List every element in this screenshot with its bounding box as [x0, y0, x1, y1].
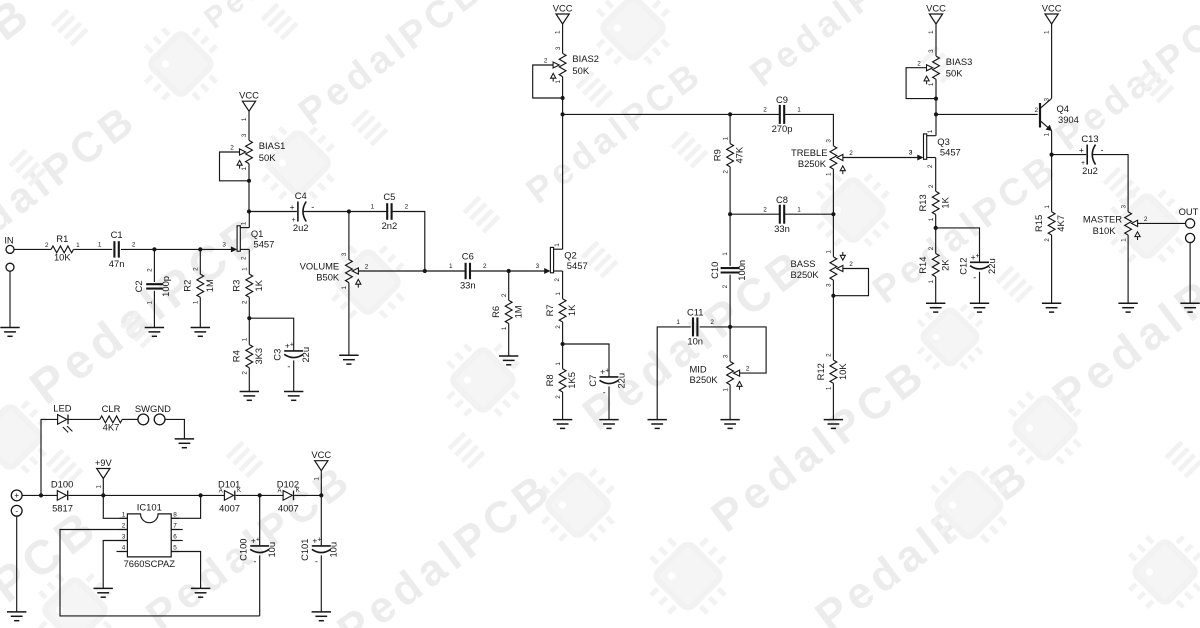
svg-text:3: 3 [722, 354, 729, 358]
svg-text:3: 3 [1120, 205, 1127, 209]
capacitor C9 270p [763, 94, 801, 134]
resistor R7 1K [544, 292, 577, 329]
svg-text:1: 1 [928, 30, 935, 34]
wire R9 to C8 node [729, 167, 731, 214]
wire node to C6 [425, 270, 466, 272]
IN jack sleeve pin [6, 263, 14, 271]
wire VCC to BIAS2 [562, 24, 564, 53]
svg-text:C7: C7 [587, 375, 598, 387]
svg-text:R1: R1 [56, 233, 68, 244]
ground C3 [284, 392, 303, 401]
svg-text:Q3: Q3 [937, 136, 950, 147]
wire R13 to R14 node [935, 215, 937, 254]
svg-text:50K: 50K [946, 68, 963, 79]
svg-text:2: 2 [241, 256, 248, 260]
svg-text:3: 3 [241, 133, 248, 137]
ground C101 [312, 612, 331, 621]
wire R12 to ground [832, 383, 834, 419]
diode D101 4007 [218, 479, 241, 514]
capacitor C10 100n [709, 252, 747, 289]
wire BIAS1 wiper loop [220, 152, 250, 181]
resistor CLR 4K7 [100, 403, 122, 432]
svg-text:R12: R12 [815, 363, 826, 380]
svg-text:2: 2 [927, 164, 934, 168]
wire C2 to ground [153, 291, 155, 328]
wire node to R2 [199, 249, 201, 274]
wire IC pin3 to ground [103, 541, 127, 589]
pad SWGND A [138, 414, 149, 425]
svg-text:1: 1 [554, 243, 561, 247]
wire VCC to Q4 collector [1051, 24, 1053, 98]
wire LED to CLR [68, 418, 100, 420]
svg-text:B50K: B50K [316, 271, 340, 282]
svg-text:MASTER: MASTER [1083, 213, 1122, 224]
capacitor C3 22u [272, 341, 312, 372]
svg-text:2n2: 2n2 [382, 220, 398, 231]
wire IC pin2 to bottom rail [60, 530, 260, 616]
svg-text:-: - [287, 361, 290, 371]
wire node to MID top [729, 327, 731, 362]
wire IC pin7 stub [171, 529, 183, 531]
svg-text:R6: R6 [490, 306, 501, 318]
svg-text:+: + [976, 253, 980, 260]
svg-text:R7: R7 [544, 304, 555, 316]
power +9V [95, 457, 113, 489]
svg-text:1K5: 1K5 [566, 372, 577, 389]
wire treble bottom to C8 node [832, 169, 834, 214]
svg-text:2: 2 [746, 366, 750, 373]
wire BIAS3 to Q3 drain [935, 79, 937, 135]
svg-text:A: A [277, 489, 281, 495]
svg-text:A: A [219, 489, 223, 495]
svg-text:2: 2 [193, 267, 200, 271]
junction C4/C5/volume [347, 209, 351, 213]
svg-text:3: 3 [536, 263, 540, 270]
wire C10 to C11 node [729, 275, 731, 327]
svg-text:2: 2 [242, 371, 249, 375]
svg-text:+: + [256, 537, 260, 544]
junction D102/VCC/C101 [319, 493, 323, 497]
wire BASS to R12 [832, 280, 834, 360]
svg-text:VOLUME: VOLUME [300, 260, 340, 271]
svg-text:R8: R8 [544, 374, 555, 386]
svg-text:2: 2 [501, 293, 508, 297]
svg-text:1: 1 [1043, 132, 1050, 136]
svg-text:C3: C3 [272, 349, 283, 361]
svg-text:1: 1 [1044, 205, 1051, 209]
wire node to C9 [730, 113, 780, 115]
ground battery [7, 612, 26, 621]
wire C8 to treble bottom [784, 213, 833, 215]
ground C7 [599, 420, 618, 429]
svg-text:2: 2 [45, 242, 49, 249]
svg-text:C101: C101 [299, 538, 310, 560]
svg-text:1: 1 [193, 300, 200, 304]
svg-text:1: 1 [341, 285, 348, 289]
svg-text:2: 2 [928, 184, 935, 188]
svg-text:1K: 1K [939, 196, 950, 208]
wire D100 to D101 [69, 494, 225, 496]
wire node to C8 [730, 213, 780, 215]
svg-text:1M: 1M [204, 279, 215, 292]
svg-text:IN: IN [4, 234, 13, 245]
svg-text:2: 2 [763, 206, 767, 213]
svg-text:2: 2 [555, 325, 562, 329]
battery negative terminal [11, 505, 22, 516]
svg-text:C12: C12 [957, 257, 968, 274]
ground C2 [145, 328, 164, 337]
svg-text:4K7: 4K7 [1055, 215, 1066, 232]
svg-text:1: 1 [371, 204, 375, 211]
wire Q3 source to R13 [935, 158, 937, 192]
potentiometer VOLUME B50K [300, 252, 369, 289]
trimmer BIAS2 50K [544, 46, 599, 83]
svg-text:1: 1 [501, 326, 508, 330]
svg-text:C10: C10 [709, 262, 720, 279]
svg-text:R13: R13 [917, 194, 928, 211]
junction R3/R4/C3 [247, 316, 251, 320]
junction LED branch [39, 493, 43, 497]
diode D102 4007 [277, 479, 300, 514]
wire treble wiper to Q3 gate [843, 157, 918, 159]
wire BIAS1 to Q1 drain [248, 164, 250, 212]
svg-text:1: 1 [122, 511, 126, 518]
ground MASTER [1118, 303, 1137, 312]
svg-text:5457: 5457 [940, 147, 961, 158]
wire C1 to Q1 gate [121, 248, 232, 250]
ground SWGND [175, 439, 194, 448]
ground OUT [1180, 303, 1199, 312]
svg-text:10K: 10K [54, 252, 71, 263]
svg-text:B10K: B10K [1093, 225, 1117, 236]
svg-text:1K: 1K [253, 279, 264, 291]
svg-text:1: 1 [928, 217, 935, 221]
svg-text:2: 2 [146, 268, 153, 272]
wire R8 to ground [562, 392, 564, 420]
junction C8 right [831, 212, 835, 216]
wire master wiper to OUT [1137, 222, 1185, 224]
svg-text:MID: MID [690, 363, 707, 374]
wire R1 to C1 [74, 248, 113, 250]
svg-text:1M: 1M [512, 305, 523, 318]
power VCC at BIAS1 [239, 90, 259, 122]
ground R6 [499, 356, 518, 365]
IC U IC101 7660SCPAZ [119, 501, 179, 569]
wire node to C101 [320, 495, 322, 546]
wire Q4 emitter down [1051, 131, 1053, 212]
svg-text:BIAS1: BIAS1 [259, 140, 286, 151]
wire C101 to ground [320, 555, 322, 612]
svg-text:1: 1 [242, 337, 249, 341]
wire R4 to ground [248, 368, 250, 392]
OUT jack sleeve pin [1186, 233, 1195, 242]
svg-text:C2: C2 [133, 280, 144, 292]
svg-text:1: 1 [826, 172, 833, 176]
svg-text:VCC: VCC [239, 90, 259, 101]
svg-text:22u: 22u [300, 347, 311, 363]
capacitor C1 47n [98, 229, 136, 269]
svg-text:2: 2 [722, 170, 729, 174]
wire R3 to R4 node [248, 297, 250, 344]
svg-text:CLR: CLR [102, 403, 121, 414]
wire BIAS2 wiper loop [533, 65, 563, 98]
svg-text:1: 1 [676, 319, 680, 326]
svg-text:C5: C5 [383, 191, 395, 202]
power VCC at BIAS3 [926, 2, 946, 34]
junction BIAS2 wiper [561, 96, 565, 100]
svg-text:VCC: VCC [1042, 2, 1062, 13]
svg-text:R14: R14 [917, 256, 928, 273]
ground VOLUME [339, 355, 358, 364]
svg-text:3: 3 [222, 242, 226, 249]
wire rail BIAS2 to tone stack [563, 113, 731, 115]
IN jack tip pin [6, 245, 14, 253]
ground R4 [240, 392, 259, 401]
svg-text:BASS: BASS [791, 258, 816, 269]
svg-text:OUT: OUT [1179, 206, 1199, 217]
wire CLR to SWGND [122, 418, 138, 420]
wire C8 node to C10 [729, 214, 731, 266]
svg-text:-: - [315, 556, 318, 566]
junction BIAS3 wiper [934, 97, 938, 101]
transistor Q2 5457 [536, 243, 588, 282]
ground R12 [824, 420, 843, 429]
wire treble/C8 node to BASS [832, 214, 834, 257]
capacitor C100 10u [238, 536, 278, 567]
wire IC pin4 stub [117, 551, 128, 553]
svg-text:C4: C4 [295, 190, 307, 201]
svg-text:100n: 100n [736, 260, 747, 281]
svg-text:10n: 10n [687, 336, 703, 347]
wire volume bottom to ground [348, 283, 350, 356]
junction BASS wiper [831, 294, 835, 298]
svg-text:1: 1 [826, 250, 833, 254]
junction C8 left [728, 212, 732, 216]
capacitor C13 2u2 [1079, 133, 1104, 176]
svg-text:4: 4 [122, 545, 126, 552]
wire rail to Q4 base [936, 113, 1038, 115]
svg-text:-: - [603, 387, 606, 397]
svg-text:1: 1 [241, 117, 248, 121]
ground C12 [970, 303, 989, 312]
capacitor C2 100p [133, 268, 171, 305]
wire C3 to ground [293, 360, 295, 391]
svg-text:C6: C6 [462, 251, 474, 262]
svg-text:-: - [311, 202, 314, 212]
svg-text:2: 2 [483, 263, 487, 270]
svg-text:4K7: 4K7 [103, 422, 120, 433]
svg-text:IC101: IC101 [137, 501, 162, 512]
svg-text:1: 1 [449, 263, 453, 270]
svg-text:4007: 4007 [278, 503, 299, 514]
svg-text:22u: 22u [615, 373, 626, 389]
svg-text:1: 1 [95, 484, 102, 488]
svg-text:C11: C11 [687, 307, 704, 318]
wire C13 to master top [1093, 155, 1128, 212]
junction R13/R14/C12 [934, 226, 938, 230]
wire Q1 drain to C4 [249, 211, 297, 213]
svg-text:33n: 33n [460, 280, 476, 291]
svg-text:TREBLE: TREBLE [791, 147, 827, 158]
LED indicator [53, 403, 72, 433]
OUT jack tip pin [1186, 219, 1195, 228]
svg-text:1: 1 [242, 267, 249, 271]
resistor R6 1M [490, 293, 523, 330]
wire Q1 source to R3 [248, 249, 250, 274]
svg-text:5: 5 [173, 545, 177, 552]
svg-text:8: 8 [173, 511, 177, 518]
ground R14 [926, 303, 945, 312]
wire node to C7 [563, 344, 609, 377]
wire IC pin6 stub [171, 540, 183, 542]
svg-text:1: 1 [928, 279, 935, 283]
svg-text:+: + [14, 491, 19, 500]
svg-text:5817: 5817 [52, 503, 73, 514]
svg-text:R9: R9 [712, 149, 723, 161]
wire rail to IC pin1 [103, 495, 127, 518]
wire node to C3 [249, 318, 293, 351]
wire IN to R1 [14, 248, 51, 250]
svg-text:1: 1 [555, 292, 562, 296]
ground R8 [553, 420, 572, 429]
wire Q2 drain up to rail [562, 77, 564, 250]
svg-text:SWGND: SWGND [135, 403, 171, 414]
junction D101/C100/D102 [258, 493, 262, 497]
resistor R4 3K3 [231, 337, 264, 374]
capacitor C7 22u [587, 367, 627, 398]
wire node to R9 [729, 114, 731, 143]
junction Q4 emitter/C13/R15 [1050, 153, 1054, 157]
wire C4 to volume node [304, 211, 349, 213]
junction R6 tap [507, 269, 511, 273]
svg-text:50K: 50K [572, 65, 589, 76]
junction BIAS1 wiper [247, 179, 251, 183]
svg-text:3: 3 [122, 534, 126, 541]
svg-text:10u: 10u [328, 542, 339, 558]
resistor R13 1K [917, 184, 950, 221]
svg-text:2: 2 [230, 145, 234, 152]
wire SWGND to ground [165, 419, 184, 439]
wire C5 to corner down [392, 212, 425, 272]
svg-text:1: 1 [1044, 30, 1051, 34]
diode D100 5817 [51, 479, 73, 514]
svg-text:2: 2 [544, 58, 548, 65]
capacitor C12 22u [957, 252, 997, 283]
wire R7 to R8 [562, 322, 564, 369]
wire Q1 drain [248, 212, 250, 228]
svg-text:5457: 5457 [567, 260, 588, 271]
svg-text:-: - [973, 273, 976, 283]
svg-text:Q2: Q2 [564, 250, 577, 261]
svg-text:1: 1 [241, 221, 248, 225]
svg-text:5457: 5457 [254, 238, 275, 249]
wire MID bottom to ground [729, 385, 731, 420]
potentiometer MID B250K [690, 354, 750, 391]
capacitor C101 10u [299, 536, 339, 567]
svg-text:B250K: B250K [798, 158, 827, 169]
svg-text:2K: 2K [939, 259, 950, 271]
wire R14 to ground [935, 277, 937, 304]
potentiometer BASS B250K [791, 250, 854, 287]
svg-text:1: 1 [826, 386, 833, 390]
wire node to R6 [508, 271, 510, 300]
capacitor C11 10n [676, 307, 714, 347]
wire VCC node riser [320, 471, 322, 496]
trimmer BIAS1 50K [230, 133, 285, 170]
wire node to C13 [1052, 154, 1087, 156]
svg-text:2: 2 [763, 107, 767, 114]
svg-text:100p: 100p [160, 276, 171, 297]
svg-text:10K: 10K [837, 363, 848, 380]
potentiometer MASTER B10K [1083, 205, 1148, 242]
svg-text:10u: 10u [266, 542, 277, 558]
wire node to C5 [349, 211, 387, 213]
wire C11 left to ground [657, 327, 691, 420]
wire R2 to ground [199, 297, 201, 327]
svg-text:1: 1 [313, 477, 320, 481]
junction rail tap Q2 drain [561, 112, 565, 116]
svg-text:BIAS2: BIAS2 [572, 53, 599, 64]
svg-text:C1: C1 [111, 229, 123, 240]
junction R9/C9 tap [728, 112, 732, 116]
capacitor C8 33n [763, 194, 801, 234]
wire C12 to ground [979, 272, 981, 304]
svg-text:1: 1 [146, 300, 153, 304]
svg-text:22u: 22u [986, 258, 997, 274]
svg-text:+: + [317, 537, 321, 544]
svg-text:2: 2 [710, 319, 714, 326]
svg-text:K: K [237, 488, 241, 494]
svg-text:1: 1 [555, 362, 562, 366]
junction R7/R8/C7 [561, 342, 565, 346]
wire IC pin5 to ground [171, 552, 200, 589]
wire C9 to treble top [784, 114, 833, 145]
svg-text:1: 1 [1120, 238, 1127, 242]
pad SWGND B [154, 414, 165, 425]
svg-text:C8: C8 [776, 194, 788, 205]
svg-text:2: 2 [365, 264, 369, 271]
svg-text:1: 1 [241, 166, 248, 170]
svg-text:2: 2 [928, 246, 935, 250]
svg-text:+: + [290, 342, 294, 349]
resistor R1 10K [45, 233, 80, 262]
junction C5/volume wiper/C6 [423, 269, 427, 273]
ground IN jack [0, 328, 19, 337]
resistor R12 10K [815, 353, 848, 390]
svg-text:R2: R2 [182, 280, 193, 292]
svg-text:1: 1 [797, 107, 801, 114]
resistor R9 47K [712, 136, 745, 173]
svg-text:2u2: 2u2 [293, 222, 309, 233]
svg-text:47K: 47K [734, 146, 745, 163]
svg-text:C13: C13 [1081, 133, 1098, 144]
transistor Q1 5457 [222, 221, 274, 260]
svg-text:3904: 3904 [1058, 114, 1079, 125]
wire VCC to BIAS3 [935, 24, 937, 56]
svg-text:1: 1 [555, 30, 562, 34]
wire R6 to ground [508, 324, 510, 357]
svg-text:7660SCPAZ: 7660SCPAZ [124, 558, 176, 569]
potentiometer TREBLE B250K [791, 139, 853, 176]
svg-text:2: 2 [554, 278, 561, 282]
wire BASS wiper loop [833, 269, 868, 296]
power VCC output [311, 449, 331, 481]
wire rail to IC pin8 [171, 495, 200, 518]
svg-text:BIAS3: BIAS3 [946, 56, 973, 67]
wire LED branch up [41, 419, 58, 495]
svg-text:2: 2 [405, 204, 409, 211]
resistor R14 2K [917, 246, 950, 283]
